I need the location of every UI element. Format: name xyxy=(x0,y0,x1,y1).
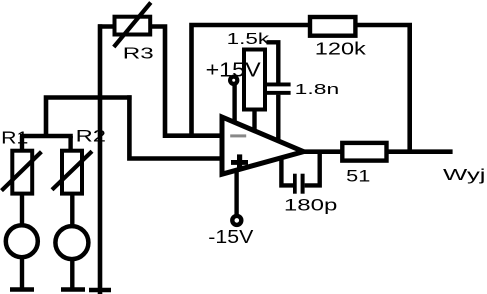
wire: riser to plus path xyxy=(46,98,132,139)
svg-text:R3: R3 xyxy=(123,46,154,63)
terminal bar 3 under V1 xyxy=(89,288,111,292)
wire: R1 to source xyxy=(20,194,24,226)
resistor 120k xyxy=(310,17,355,36)
svg-text:Wyj: Wyj xyxy=(443,167,486,184)
terminal bar 2 xyxy=(61,287,85,291)
op-amp U1 xyxy=(222,117,304,174)
wire: 1.5k bottom lead to op-amp top edge xyxy=(252,110,256,132)
wire: below source 2 xyxy=(70,259,74,290)
terminal +15V xyxy=(230,77,237,84)
wire: below source 1 xyxy=(20,258,24,290)
svg-text:1.5k: 1.5k xyxy=(227,31,271,48)
wire: -15V lead from op-amp bottom edge xyxy=(234,169,238,215)
resistor R3 (variable) xyxy=(114,3,151,48)
wire: R2 top stub xyxy=(68,136,72,151)
wire: feedback rail from minus input up to top xyxy=(192,25,311,138)
source circle under R1 xyxy=(6,225,38,257)
resistor R2 (variable) xyxy=(52,151,92,194)
wire: R3 left lead xyxy=(98,24,115,29)
minus sign (gray) xyxy=(230,134,246,137)
wire: corner down to plus input xyxy=(129,95,222,158)
plus sign xyxy=(231,154,248,169)
terminal -15V xyxy=(232,216,241,225)
wire: R3 right lead down to inverting input xyxy=(150,27,222,136)
wire: R1 top stub xyxy=(20,136,24,151)
wire: 51 right to output end xyxy=(387,149,453,154)
svg-text:51: 51 xyxy=(346,168,370,186)
capacitor 180p loop xyxy=(281,152,319,194)
wire: output from apex xyxy=(304,149,343,154)
wire: 1.8n bottom lead to op-amp top edge xyxy=(276,95,280,142)
capacitor 1.8n plates xyxy=(267,83,291,95)
resistor 51 xyxy=(342,143,386,161)
wire: 1.8n top lead with corner xyxy=(267,42,279,82)
source circle under R2 xyxy=(55,226,88,259)
svg-text:120k: 120k xyxy=(315,38,366,58)
svg-text:-15V: -15V xyxy=(208,227,253,247)
svg-text:180p: 180p xyxy=(284,196,338,215)
resistor 1.5k xyxy=(244,50,265,110)
svg-text:1.8n: 1.8n xyxy=(295,81,340,98)
wire: V1 long vertical from R3 left down to bottom xyxy=(98,24,103,294)
wire: 120k right to output node xyxy=(355,25,409,154)
wire: +15V lead down to op-amp xyxy=(232,82,236,123)
resistor R1 (variable) xyxy=(2,151,42,194)
wire: R1R2 top join xyxy=(20,134,73,138)
svg-text:R1: R1 xyxy=(1,127,28,147)
terminal bar 1 xyxy=(10,287,34,291)
svg-text:R2: R2 xyxy=(76,126,106,145)
wire: R2 to source xyxy=(70,194,74,226)
